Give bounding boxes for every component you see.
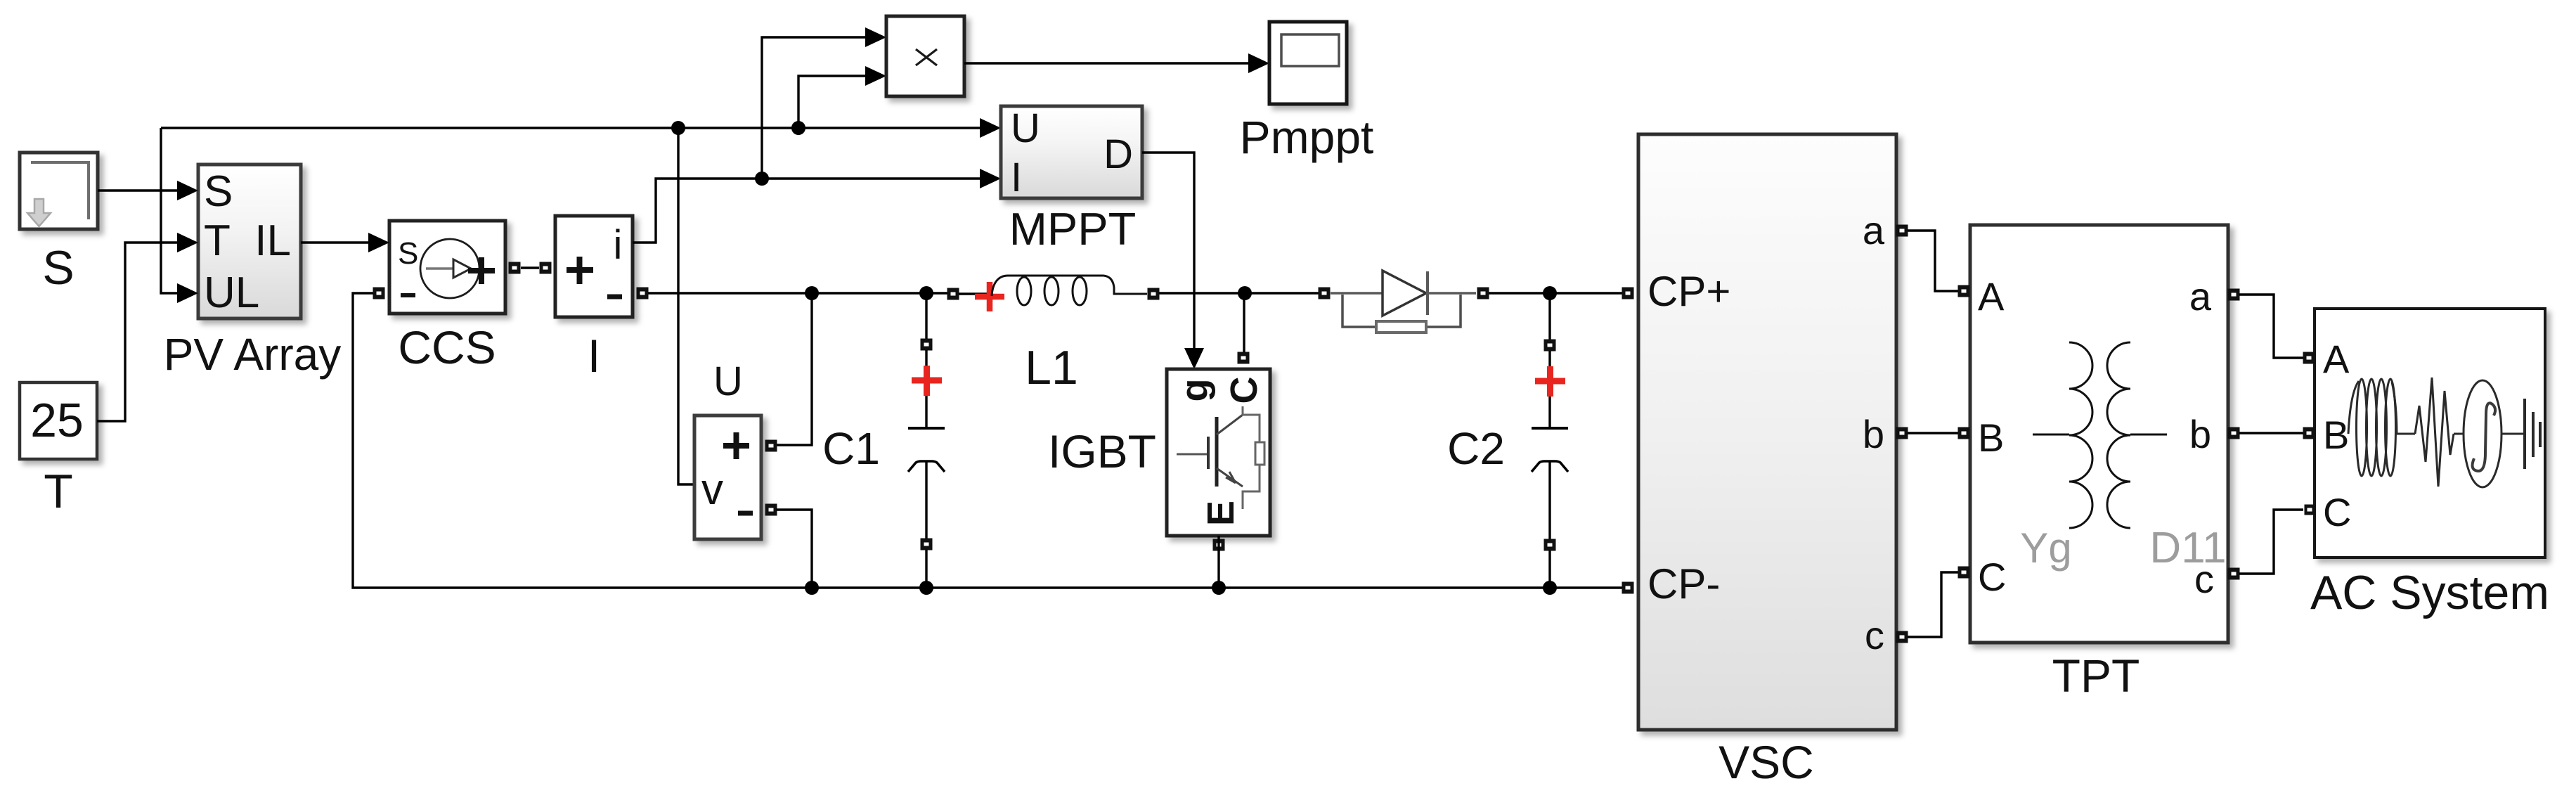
node negative bus C1 [919, 581, 933, 595]
product block [886, 16, 964, 96]
node rail to voltmeter plus [805, 286, 819, 300]
svg-text:25: 25 [30, 394, 84, 447]
voltmeter block U [694, 416, 761, 539]
wire DC positive rail I to L1 [648, 292, 948, 294]
svg-text:L1: L1 [1025, 341, 1078, 394]
svg-text:C: C [1223, 377, 1265, 404]
svg-text:CCS: CCS [398, 321, 496, 373]
svg-text:D: D [1103, 131, 1133, 177]
svg-text:c: c [1865, 613, 1884, 657]
scope block Pmppt [1269, 22, 1347, 104]
wire CCS plus to I plus [521, 266, 539, 269]
VSC converter block [1638, 134, 1896, 730]
wire C1 bottom to DC negative bus [925, 550, 927, 588]
svg-text:CP-: CP- [1648, 560, 1720, 607]
wire VSC b to TPT B [1908, 432, 1958, 434]
wire voltmeter v output riser [678, 128, 694, 484]
svg-text:g: g [1174, 379, 1216, 402]
port IGBT collector [1238, 352, 1250, 364]
svg-text:CP+: CP+ [1648, 268, 1730, 315]
svg-text:T: T [44, 465, 73, 518]
capacitor C2 [1532, 340, 1568, 551]
wire PV Array IL to CCS s input [301, 233, 389, 252]
source block S [20, 153, 98, 229]
svg-text:C: C [1978, 555, 2006, 599]
wire TPT b to AC System B [2239, 432, 2303, 434]
wire TPT a to AC System A [2239, 295, 2303, 358]
port CCS plus output [509, 262, 521, 274]
svg-text:C1: C1 [822, 423, 880, 474]
wire DC positive rail diode to VSC CP+ [1488, 292, 1624, 294]
svg-text:VSC: VSC [1719, 736, 1814, 788]
port TPT B [1958, 427, 1970, 439]
node rail to C1 [919, 286, 933, 300]
svg-text:v: v [701, 465, 723, 514]
svg-text:B: B [2323, 413, 2349, 457]
port TPT c [2228, 568, 2240, 580]
current measurement block I [555, 216, 633, 317]
svg-text:S: S [204, 167, 233, 216]
node I bus to product tap [755, 172, 769, 186]
MPPT controller block [1001, 105, 1142, 200]
node U bus to voltmeter riser [671, 121, 685, 135]
svg-text:i: i [614, 222, 623, 268]
svg-text:a: a [1863, 208, 1885, 252]
wire S source to PV Array S input [98, 181, 198, 200]
wire TPT c to AC System C [2239, 510, 2303, 574]
port voltmeter minus [765, 504, 777, 516]
port VSC CP- [1622, 582, 1634, 594]
port VSC c [1896, 631, 1908, 643]
wire constant 25 to PV Array T input [97, 233, 198, 421]
svg-text:B: B [1978, 416, 2004, 460]
svg-text:E: E [1200, 501, 1242, 526]
svg-text:S: S [42, 241, 74, 295]
wire rail to C2 top [1548, 293, 1551, 340]
capacitor C1 [908, 339, 945, 550]
port TPT a [2228, 289, 2240, 301]
svg-text:I: I [1011, 155, 1022, 200]
svg-text:S: S [398, 236, 418, 271]
controlled current source CCS [389, 221, 505, 314]
wire voltmeter plus tap [776, 293, 812, 445]
port AC System B [2303, 427, 2315, 439]
AC System block [2315, 309, 2545, 558]
svg-text:T: T [204, 217, 231, 265]
svg-text:D11: D11 [2149, 524, 2226, 572]
port CCS minus [373, 288, 385, 300]
node negative bus voltmeter [805, 581, 819, 595]
IGBT block Q1 [1167, 369, 1270, 536]
PV Array block U1 [198, 165, 301, 318]
port IGBT emitter [1213, 539, 1225, 551]
wire MPPT D output to IGBT gate [1142, 153, 1204, 369]
svg-text:I: I [588, 330, 600, 382]
port VSC a [1896, 225, 1908, 237]
diode D1 [1319, 271, 1489, 333]
svg-text:Yg: Yg [2020, 524, 2071, 572]
wire U tap to product input 2 [798, 66, 886, 128]
constant block T value 25 [20, 382, 97, 459]
node rail to IGBT collector [1238, 286, 1252, 300]
svg-text:IGBT: IGBT [1048, 425, 1156, 477]
three-phase transformer TPT [1970, 225, 2228, 643]
wire product output to scope Pmppt [964, 53, 1269, 73]
node negative bus IGBT emitter [1212, 581, 1226, 595]
node negative bus C2 [1543, 581, 1557, 595]
wire I tap to product input 1 [762, 27, 886, 179]
svg-text:UL: UL [204, 269, 259, 317]
node U bus to product tap [791, 121, 805, 135]
svg-text:TPT: TPT [2052, 650, 2140, 702]
port VSC CP+ [1622, 288, 1634, 300]
svg-text:U: U [713, 359, 743, 404]
svg-text:C2: C2 [1447, 423, 1505, 474]
wire U feedback to PV Array UL input [161, 128, 198, 303]
port AC System A [2303, 352, 2315, 364]
svg-text:Pmppt: Pmppt [1240, 111, 1374, 163]
svg-text:AC System: AC System [2310, 566, 2549, 619]
svg-text:b: b [2189, 412, 2211, 456]
port voltmeter plus [765, 440, 777, 452]
port I minus output [637, 288, 649, 300]
svg-text:MPPT: MPPT [1009, 203, 1137, 255]
wire U bus to MPPT U input [161, 118, 1001, 138]
svg-text:b: b [1863, 412, 1884, 456]
wire voltmeter minus to DC negative bus [776, 510, 812, 588]
svg-text:A: A [2323, 337, 2350, 381]
wire I measurement to MPPT I input [633, 169, 1001, 243]
wire VSC a to TPT A [1908, 231, 1958, 291]
wire DC negative bus [353, 293, 1624, 588]
port AC System C [2305, 505, 2315, 515]
wire VSC c to TPT C [1908, 572, 1958, 637]
wire rail to IGBT collector port [1243, 293, 1245, 353]
port TPT A [1958, 285, 1970, 297]
svg-text:A: A [1978, 274, 2005, 318]
port VSC b [1896, 427, 1908, 439]
port TPT C [1958, 567, 1970, 579]
wire DC positive rail L1 to diode [1158, 292, 1319, 294]
port TPT b [2228, 427, 2240, 439]
svg-text:PV Array: PV Array [164, 329, 342, 380]
svg-text:C: C [2323, 490, 2351, 534]
wire IGBT emitter to DC negative bus [1217, 536, 1219, 588]
svg-text:U: U [1011, 105, 1040, 151]
svg-text:a: a [2189, 274, 2212, 318]
svg-text:IL: IL [254, 217, 291, 265]
wire rail to C1 top [925, 293, 927, 340]
port I plus input [540, 262, 552, 274]
inductor L1 [947, 276, 1160, 311]
node rail to C2 [1543, 286, 1557, 300]
wire C2 bottom to DC negative bus [1548, 550, 1551, 588]
